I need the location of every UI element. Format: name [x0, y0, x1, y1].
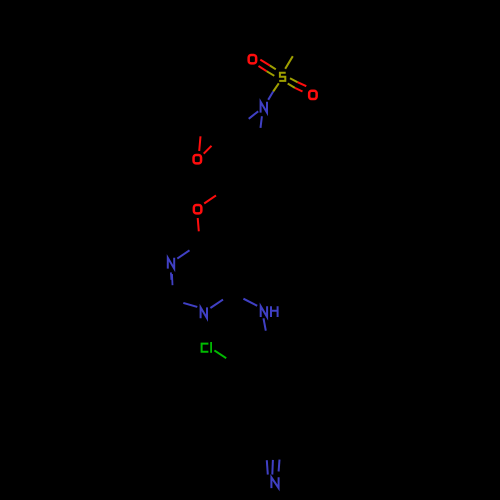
bond C#N nitrile line 2 [271, 460, 274, 475]
bond C#N nitrile line 3 [278, 460, 281, 472]
bond Cl-C2 aryl [214, 350, 226, 358]
atom O oxetane [194, 155, 202, 163]
bond N3=C2 double bond line L [170, 272, 173, 279]
bond oxetane O-CH2 up [199, 136, 200, 151]
bond ether O-CH2 up-right [204, 195, 216, 203]
atom N nitrile [271, 477, 278, 488]
bond S=O2 double bond line A [290, 78, 298, 82]
bond S-CH3 (methyl, S half) [285, 56, 293, 69]
bond N-CH2 azetidine down [261, 116, 262, 128]
atom C of Cl chloro [202, 344, 209, 352]
atom O ether [194, 205, 202, 213]
atom O sulfonyl bottom-right [309, 91, 317, 99]
bond ether O-C4 pyrimidine down [198, 218, 199, 231]
atom N1 pyrimidine [201, 307, 207, 318]
bond N1-C6 pyrimidine [210, 300, 223, 308]
atom H of NH amine [271, 306, 278, 317]
bond NH-C1 aryl [264, 318, 266, 330]
bond C6-NH [243, 299, 257, 306]
bond N-CH2 azetidine left [249, 111, 259, 119]
bond C#N nitrile line 1 [267, 460, 268, 474]
bond N3=C2 double bond line R [171, 274, 174, 285]
atom N3 pyrimidine [168, 258, 174, 269]
bond S=O1 double bond line B [259, 66, 267, 71]
bond oxetane O-CH2 up-right [204, 146, 212, 154]
bond S-N sulfonamide [273, 83, 279, 91]
bond N3-C4 pyrimidine [177, 250, 189, 258]
bond S=O2 double bond line B [288, 84, 295, 88]
bond C2-N1 pyrimidine [183, 303, 197, 307]
atom O sulfonyl top-left [249, 55, 257, 63]
atom l of Cl chloro [210, 342, 212, 353]
bond S=O1 double bond line A [260, 60, 270, 66]
atom N sulfonamide [261, 102, 267, 113]
atom N of NH amine [261, 306, 267, 317]
atom S sulfonyl [279, 73, 286, 81]
